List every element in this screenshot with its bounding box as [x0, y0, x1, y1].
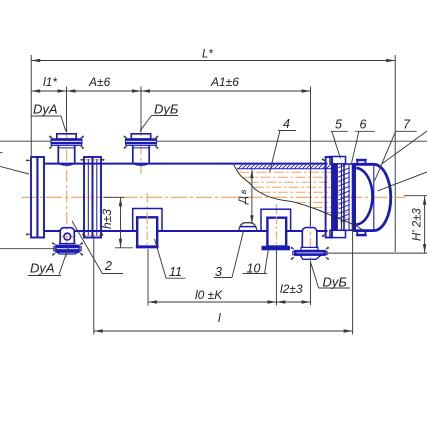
- construction line bottom flange level: [0, 248, 56, 250]
- weld tick left flange: [26, 159, 30, 161]
- svg-text:Д: Д: [237, 196, 249, 206]
- shell top line: [101, 163, 328, 165]
- centerline nozzle DyA vertical: [66, 128, 68, 258]
- crosshair drain hole: [60, 236, 76, 238]
- label DyA bottom: [28, 247, 69, 275]
- label 11: [155, 239, 186, 279]
- weld marks joint flange pair: [80, 159, 104, 236]
- label 4: [270, 117, 296, 172]
- label DyB top: [140, 102, 179, 132]
- extension line l left: [93, 238, 95, 335]
- shell bottom line: [101, 230, 328, 232]
- left edge tick: [0, 152, 3, 154]
- svg-text:A1±6: A1±6: [210, 75, 239, 89]
- nozzle 10 (bottom coupling flanged): [261, 209, 291, 249]
- svg-text:l1*: l1*: [43, 75, 57, 89]
- tube centerlines in section: [239, 172, 348, 217]
- centerline nozzle 11 vertical: [146, 193, 148, 250]
- chamber top line: [44, 163, 101, 165]
- extension line l right: [352, 221, 354, 335]
- dimension H' 2±3: [326, 196, 427, 253]
- weld marks girth flange: [322, 158, 325, 237]
- nozzle DyB top (flanged): [124, 134, 159, 166]
- svg-text:h±3: h±3: [100, 209, 114, 229]
- nozzle DyA bottom (drain, flanged): [52, 228, 83, 256]
- svg-text:2: 2: [104, 259, 112, 273]
- label DyB bottom: [311, 263, 350, 289]
- svg-text:l: l: [218, 311, 221, 325]
- centerline nozzle 10 over bore: [275, 216, 277, 246]
- centerline nozzle DyB top vertical: [140, 126, 142, 175]
- centerline nozzle 11 over bore: [146, 216, 148, 246]
- shell wall hatching: [239, 165, 335, 169]
- extension line L* right (x=395): [394, 55, 396, 252]
- tube sheet hatching: [338, 163, 349, 223]
- dimension l1*: [31, 75, 66, 93]
- centerline nozzle 10 vertical: [275, 204, 277, 251]
- nozzle 11 (bottom coupling): [133, 209, 162, 247]
- extension line DyB center: [140, 87, 142, 133]
- svg-text:4: 4: [283, 117, 290, 131]
- label 6: [352, 118, 375, 164]
- label 7: [375, 118, 417, 182]
- label DyA top: [31, 102, 66, 132]
- extension line DyA center: [66, 87, 68, 133]
- construction line nozzle-flange level: [0, 140, 427, 142]
- svg-text:DуA: DуA: [30, 261, 55, 276]
- dimension Dv (inner diameter): [237, 169, 254, 224]
- svg-text:l0 ±K: l0 ±K: [195, 288, 223, 302]
- tube sheet and girth flanges (parts 5,6): [326, 157, 353, 238]
- label 5: [331, 118, 348, 159]
- extension line A1 right / DyB bottom center: [310, 87, 312, 306]
- leader exiting right top: [382, 131, 427, 164]
- leader exiting right mid: [378, 172, 427, 191]
- svg-text:DуБ: DуБ: [323, 275, 348, 290]
- leader exiting left edge: [0, 166, 29, 174]
- dimension l2±3: [276, 282, 310, 304]
- part 3 dome on shell bottom: [239, 223, 257, 231]
- extension line left (x=31): [30, 55, 32, 175]
- svg-text:A±6: A±6: [88, 75, 111, 89]
- centerline nozzle DyB bottom vertical: [309, 219, 311, 262]
- svg-text:в: в: [239, 190, 248, 194]
- svg-text:5: 5: [335, 118, 342, 132]
- label 3: [214, 231, 244, 279]
- dimension l: [94, 311, 353, 333]
- shell inner wall line: [237, 168, 334, 170]
- dimension A1±6: [141, 75, 311, 93]
- chamber end flange pair: [31, 157, 44, 238]
- svg-text:7: 7: [403, 118, 411, 132]
- break line of broken-out section: [234, 165, 362, 230]
- svg-text:6: 6: [360, 118, 367, 132]
- label 10: [243, 249, 269, 275]
- svg-text:3: 3: [215, 265, 222, 279]
- gasket line joint flange: [83, 160, 105, 236]
- label 2: [72, 221, 123, 274]
- svg-text:DуA: DуA: [33, 102, 58, 117]
- chamber bottom line: [44, 230, 101, 232]
- nozzle DyA top (flanged): [49, 134, 84, 166]
- rear head with elliptical cover (part 7): [353, 164, 391, 230]
- extension line nozzle 11 center: [147, 249, 149, 306]
- svg-text:l2±3: l2±3: [280, 282, 303, 296]
- dimension A±6: [67, 75, 142, 93]
- dimension l0±K: [148, 288, 276, 304]
- weld mark left flange bottom: [26, 233, 30, 235]
- air vent stub on head: [356, 160, 367, 165]
- main horizontal centerline: [21, 196, 405, 198]
- drain stub on head: [356, 231, 367, 236]
- chamber-shell joint flange pair: [84, 157, 101, 238]
- svg-text:DуБ: DуБ: [154, 102, 179, 117]
- dimension L*: [31, 49, 395, 63]
- nozzle DyB bottom (flanged): [291, 228, 329, 261]
- svg-text:L*: L*: [202, 49, 213, 61]
- svg-text:11: 11: [169, 265, 182, 279]
- dimension h±3: [100, 197, 133, 248]
- extension line nozzle 10 center: [275, 251, 277, 306]
- svg-text:H' 2±3: H' 2±3: [412, 208, 424, 241]
